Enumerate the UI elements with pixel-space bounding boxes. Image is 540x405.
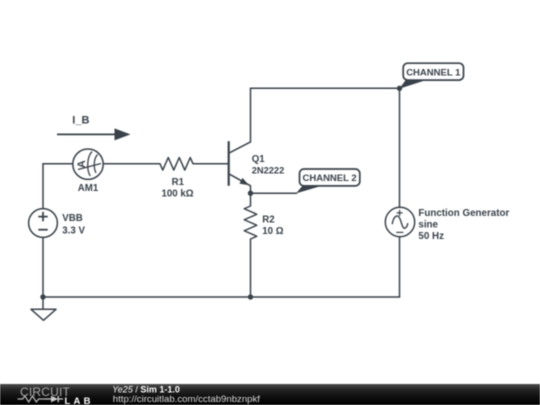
node: R2 bottom junction [248, 294, 253, 299]
wire: R1 to Q1 base [193, 163, 228, 165]
svg-text:I_B: I_B [72, 115, 89, 127]
wire: node to CHANNEL 2 flag [251, 192, 297, 194]
svg-text:CHANNEL 1: CHANNEL 1 [406, 67, 461, 78]
wire: bottom ground rail [43, 296, 400, 298]
logo resistor zigzag [18, 396, 44, 402]
wire: base wire ammeter to R1 [43, 163, 160, 165]
svg-text:VBB: VBB [62, 213, 82, 224]
svg-text:R2: R2 [262, 214, 274, 225]
voltage source V1 VBB [29, 209, 58, 238]
function generator V2 [385, 207, 414, 236]
svg-text:http://circuitlab.com/cctab9nb: http://circuitlab.com/cctab9nbznpkf [113, 394, 261, 405]
svg-text:AM1: AM1 [78, 183, 99, 194]
node: ground-left junction [40, 294, 45, 299]
flag CHANNEL 2 [296, 169, 360, 193]
wire: right riser to function generator [399, 88, 401, 297]
logo diode [51, 396, 58, 403]
current arrow I_B [57, 128, 131, 140]
wire: collector riser [250, 88, 252, 142]
svg-text:sine: sine [418, 219, 438, 230]
wire: left riser VBB to ground node [42, 164, 44, 297]
svg-text:10 Ω: 10 Ω [262, 226, 283, 237]
svg-text:3.3 V: 3.3 V [62, 226, 85, 237]
svg-text:2N2222: 2N2222 [252, 166, 285, 176]
svg-text:R1: R1 [172, 177, 185, 188]
svg-text:CHANNEL 2: CHANNEL 2 [302, 173, 356, 184]
svg-text:Function Generator: Function Generator [418, 208, 509, 219]
svg-text:50 Hz: 50 Hz [418, 231, 444, 242]
svg-text:CIRCUIT: CIRCUIT [20, 385, 71, 399]
svg-text:Q1: Q1 [252, 154, 266, 165]
footer bar [0, 384, 540, 405]
flag CHANNEL 1 [399, 63, 463, 89]
node: emitter junction [248, 191, 253, 196]
resistor R1 [160, 158, 193, 171]
wire: ground stem [42, 297, 44, 309]
transistor Q1 [229, 141, 251, 186]
svg-text:100 kΩ: 100 kΩ [162, 189, 194, 200]
wire: emitter stub to node [250, 186, 252, 193]
node: CHANNEL 1 corner junction [397, 86, 402, 91]
resistor R2 [244, 193, 257, 297]
ammeter AM1 [73, 149, 103, 179]
wire: top rail [251, 87, 400, 89]
svg-text:LAB: LAB [65, 396, 94, 405]
ground [31, 309, 56, 320]
